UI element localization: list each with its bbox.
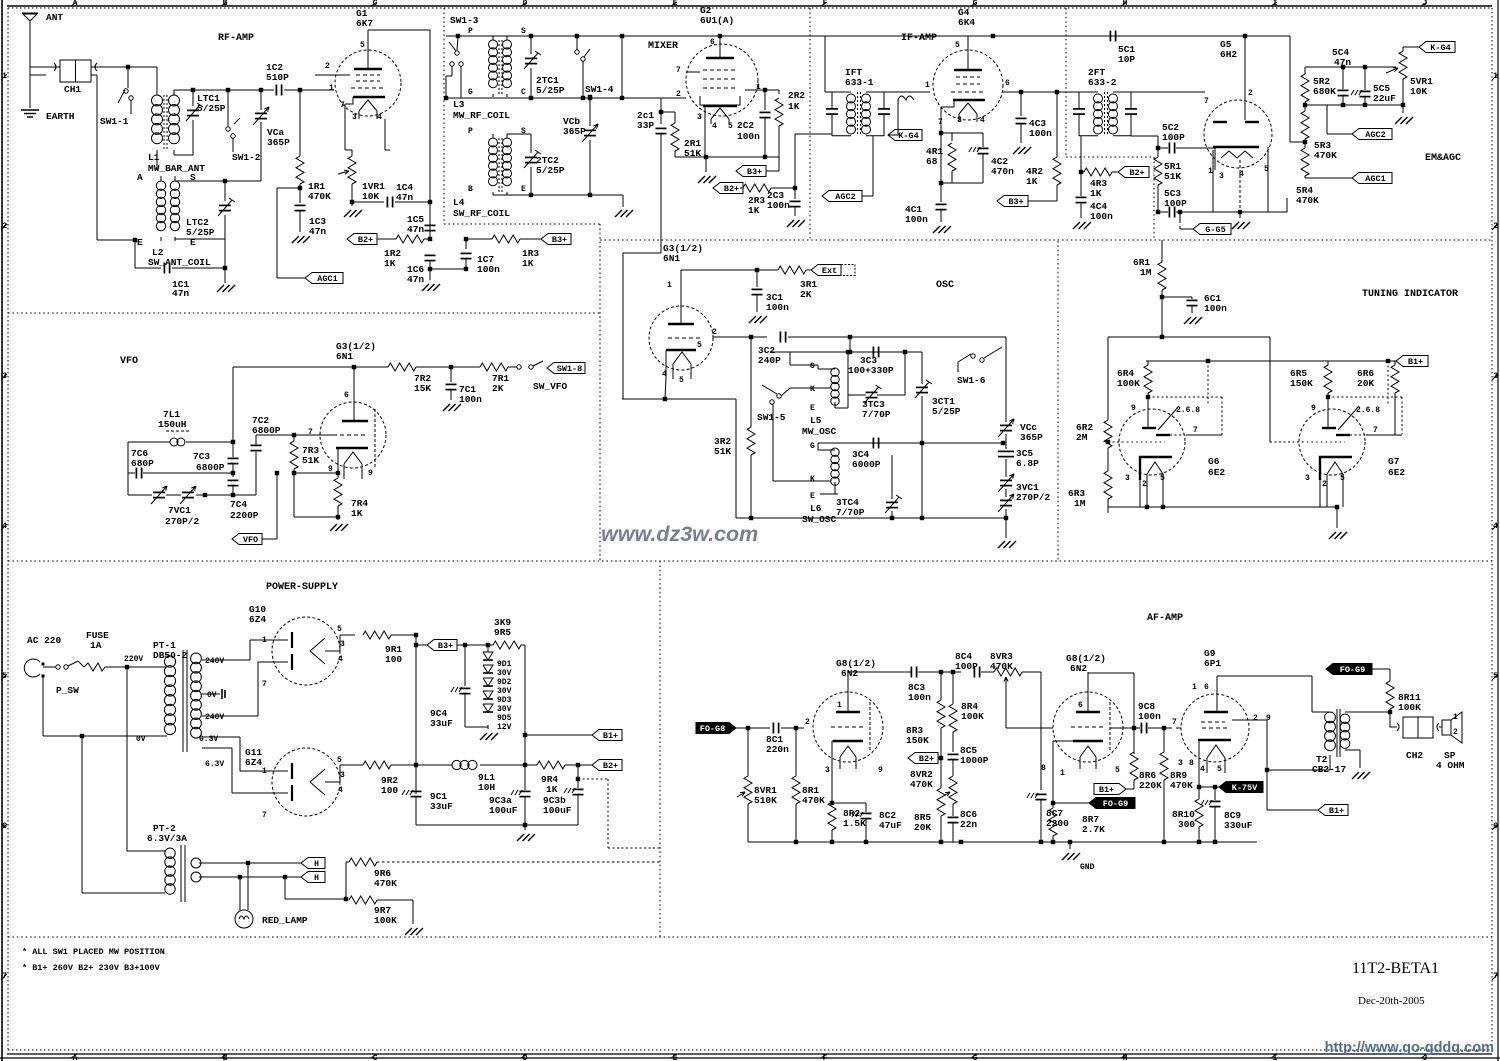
svg-text:100K: 100K [961,711,984,722]
svg-text:B2+: B2+ [724,184,739,194]
svg-text:MW_RF_COIL: MW_RF_COIL [453,110,510,121]
svg-text:1.5K: 1.5K [843,818,866,829]
svg-text:G-G5: G-G5 [1205,225,1225,235]
capacitor 8C6 [948,809,978,842]
tube G7 6E2 [1288,404,1405,489]
svg-text:5: 5 [337,625,342,634]
svg-text:0V: 0V [207,691,217,700]
ground 4C4 [1073,222,1091,229]
capacitor 1C4 [352,182,432,208]
svg-text:TUNING INDICATOR: TUNING INDICATOR [1362,289,1458,300]
wire detector row212 [1178,210,1213,223]
inductor 7L1 [128,409,233,446]
capacitor 9C1 [402,790,453,825]
svg-text:6N2: 6N2 [841,668,858,679]
capacitor 1C3 [295,196,327,237]
wire tap 0v heater [202,689,225,699]
wire sw15 K6 [773,404,831,481]
svg-text:6.3V/3A: 6.3V/3A [147,833,187,844]
capacitor 1C7 [461,237,501,275]
svg-text:MIXER: MIXER [648,41,678,52]
capacitor 7C2 [251,415,297,495]
flag B2+ psu [578,760,622,772]
wire L5 G row [771,337,922,369]
svg-text:1: 1 [262,767,267,776]
wire osc bottom row [736,516,1008,520]
wire G9 grid [1176,727,1181,729]
section divider PSU/AF x660 [659,561,661,937]
wire osc grid row [713,335,767,339]
flag B2+ rf [347,234,396,246]
svg-text:1K: 1K [1090,188,1102,199]
tube G11 6Z4 [245,747,345,820]
svg-text:K-75V: K-75V [1232,783,1258,793]
wire row y157 [675,155,779,159]
switch SW_VFO [517,361,568,392]
wire G7 anode drop [1387,361,1389,406]
wire injection from mixer [622,397,736,518]
transformer L4 SW_RF_COIL [453,134,512,219]
svg-text:100n: 100n [905,214,928,225]
svg-text:100K: 100K [1117,378,1140,389]
wire G11 cathode out [325,765,363,782]
title OSC [936,280,954,291]
capacitor 9C4 [430,645,471,729]
resistor 7R2 [388,363,431,394]
svg-text:5: 5 [728,122,733,131]
transformer PT-1 [153,640,201,752]
svg-text:150K: 150K [906,735,929,746]
capacitor 1C6 [407,255,436,285]
svg-text:5/25P: 5/25P [186,227,215,238]
svg-text:7: 7 [676,66,681,75]
svg-text:3: 3 [340,640,345,649]
svg-text:1K: 1K [384,258,396,269]
svg-text:4: 4 [377,113,382,122]
svg-text:470K: 470K [1314,150,1337,161]
svg-text:1000P: 1000P [960,755,989,766]
svg-text:33uF: 33uF [430,718,453,729]
section divider VFO/OSC [599,224,601,561]
ground 6C1 [1184,317,1202,324]
resistor 2R2 [775,90,805,171]
wire CH2 wiring [1390,712,1442,727]
resistor 2R3 [740,184,797,216]
capacitor 5C4 [1332,47,1351,105]
svg-text:240V: 240V [205,713,224,722]
switch SW1-2 [226,90,261,163]
svg-text:470K: 470K [910,779,933,790]
capacitor 9C3a [489,790,531,825]
wire G5 plate lead [1244,36,1246,120]
svg-text:9D5: 9D5 [497,714,512,723]
svg-text:B2+: B2+ [1129,168,1144,178]
capacitor 3C1 [752,270,790,313]
svg-text:365P: 365P [1020,432,1043,443]
title RF-AMP [218,33,254,44]
title TUNING INDICATOR [1362,289,1458,300]
resistor 9R5 [493,617,525,649]
svg-text:7: 7 [1373,426,1378,435]
resistor 8R1 [792,728,825,842]
potentiometer 8VR1 [737,728,777,842]
box under G5 [1213,147,1287,212]
wire G2 g1 row [686,71,700,73]
resistor 6R4 [1117,361,1152,428]
section divider y937 [8,936,1492,938]
svg-text:C: C [521,88,526,97]
svg-text:6800P: 6800P [252,425,281,436]
svg-text:22uF: 22uF [1373,93,1396,104]
capacitor 5C1 [1110,31,1135,66]
svg-text:100P: 100P [1162,132,1185,143]
wire heater row2 [199,875,301,879]
svg-text:A: A [137,172,143,183]
svg-text:H: H [314,860,319,869]
svg-text:1K: 1K [788,101,800,112]
svg-text:6E2: 6E2 [1208,467,1225,478]
wire tuning cath rail [1108,480,1343,509]
svg-text:RED_LAMP: RED_LAMP [262,915,308,926]
svg-text:220n: 220n [766,744,789,755]
tube G3a 6N1 vfo [308,341,386,479]
svg-text:2.7K: 2.7K [1082,824,1105,835]
tube G3b 6N1 osc [649,243,717,385]
svg-text:270P/2: 270P/2 [165,516,200,527]
svg-text:3: 3 [825,766,830,775]
svg-text:30V: 30V [497,669,512,678]
svg-text:E: E [521,185,526,194]
diode chain 9D1-9D5 [483,643,512,732]
svg-text:1: 1 [925,81,930,90]
svg-text:9R5: 9R5 [494,627,511,638]
svg-text:MW_BAR_ANT: MW_BAR_ANT [148,163,205,174]
svg-text:680K: 680K [1313,86,1336,97]
svg-text:P: P [468,127,473,136]
svg-text:240V: 240V [205,657,224,666]
svg-text:L3: L3 [453,99,465,110]
wire G9 cathode [1197,740,1217,789]
resistor 7R3 [290,435,319,517]
svg-text:7C4: 7C4 [230,499,247,510]
transformer L1 MW_BAR_ANT [148,67,205,174]
wire 3C3 box [846,350,907,395]
svg-text:B3+: B3+ [438,641,453,651]
wire G4 plate [967,36,969,50]
svg-text:7: 7 [1172,718,1177,727]
svg-text:2K: 2K [492,383,504,394]
svg-text:33P: 33P [637,120,654,131]
svg-text:SW_OSC: SW_OSC [802,514,837,525]
section divider IF/EM x1066 [1066,8,1154,240]
svg-text:1K: 1K [748,205,760,216]
trimmer 2TC2 [507,134,565,197]
svg-text:2M: 2M [1076,432,1088,443]
section divider RF/coilbox [444,8,600,224]
wire PT1 primary taps [0,0,1,1]
ground psu rail [517,825,535,841]
wire row337 [1108,337,1270,406]
svg-text:9: 9 [368,469,373,478]
capacitor 1C5 [407,214,436,241]
coil L5 MW_OSC [802,368,839,437]
svg-text:1: 1 [1453,713,1458,722]
svg-text:B2+: B2+ [358,235,373,245]
svg-text:E: E [190,237,196,248]
wire osc plate row [681,268,778,272]
svg-text:100+330P: 100+330P [848,365,894,376]
flag AGC2 if [822,136,873,202]
wire row y195 [493,193,623,207]
wire tap 63b [202,748,288,793]
svg-text:6: 6 [344,391,349,400]
svg-text:470K: 470K [990,661,1013,672]
label AC 220 [27,635,62,646]
wire row361 [1146,359,1396,363]
trimmer LTC1 [186,88,226,155]
resistor 6R5 [1290,361,1332,428]
svg-text:47n: 47n [407,224,424,235]
svg-text:100uF: 100uF [489,805,518,816]
section divider MIXER/IF x810 [809,8,811,240]
tube G8a 6N2 [805,658,883,775]
wire 2FT right to G5 [1131,91,1205,93]
svg-text:GND: GND [1080,863,1095,872]
tube G4 6K4 [925,7,1010,127]
svg-text:47n: 47n [309,226,326,237]
resistor 6R3 [1068,448,1112,513]
svg-text:4: 4 [338,655,343,664]
capacitor 4C4 [1076,197,1114,222]
resistor 1R2 [384,235,430,269]
potentiometer 5VR1 [1386,47,1433,105]
variable cap 7VC1a [151,486,167,504]
svg-text:220V: 220V [124,655,143,664]
flag VFO [232,471,279,545]
svg-text:S: S [521,127,526,136]
resistor 9R6 [285,858,397,901]
svg-text:8: 8 [1041,764,1046,773]
capacitor 8C1 [766,723,804,756]
svg-text:2: 2 [1453,728,1458,737]
capacitor 6C1 [1162,293,1227,314]
wire G1 plate to bus [368,30,430,239]
wire G1 grid [284,75,350,92]
wire G2 cathode [703,106,705,157]
capacitor 8C4 [955,651,994,678]
variable cap VCb [563,95,598,195]
svg-text:30V: 30V [497,687,512,696]
svg-text:5: 5 [337,756,342,765]
switch SW1-6 [957,347,1002,386]
wire sw15 to K5 [781,388,831,396]
wire IF top bus [825,34,1290,92]
wire L6 E [820,482,838,494]
svg-text:100n: 100n [1138,711,1161,722]
svg-text:11T2-BETA1: 11T2-BETA1 [1352,960,1439,977]
svg-text:6: 6 [1005,79,1010,88]
svg-text:6Z4: 6Z4 [249,614,266,625]
svg-text:9: 9 [1131,404,1136,413]
resistor 1R3 [466,235,541,269]
flag B2+ af [908,753,941,765]
connector CH2 [1397,717,1439,761]
svg-text:K: K [810,385,815,394]
wire af bottom rail [748,840,1257,844]
resistor 6R1 [1133,240,1166,339]
flag B1+ psu [525,730,622,742]
svg-text:SW1-5: SW1-5 [757,412,786,423]
transformer 2FT 633-2 [1073,67,1137,136]
svg-text:1K: 1K [546,784,558,795]
capacitor 2c1 [637,98,667,253]
potentiometer 8VR2 [910,769,957,816]
svg-text:B1+: B1+ [1329,806,1344,816]
svg-text:6: 6 [1204,683,1209,692]
svg-text:365P: 365P [267,137,290,148]
flag input FO-G8 [696,723,770,735]
switch SW1-3 [444,15,479,100]
ground 2C3 [787,220,805,227]
svg-text:20K: 20K [1357,378,1374,389]
ground 1C3 [292,236,310,243]
svg-text:2: 2 [676,90,681,99]
svg-text:7: 7 [262,811,267,820]
svg-text:9D1: 9D1 [497,660,512,669]
svg-text:G: G [810,442,815,451]
svg-text:100n: 100n [908,692,931,703]
svg-text:4 OHM: 4 OHM [1436,760,1465,771]
svg-text:http://www.go-gddq.com: http://www.go-gddq.com [1325,1040,1494,1056]
transformer L3 MW_RF_COIL [453,36,512,121]
svg-text:1: 1 [1208,167,1213,176]
svg-text:33uF: 33uF [430,801,453,812]
svg-text:L5: L5 [810,415,822,426]
switch P_SW [43,661,79,696]
svg-text:633-1: 633-1 [845,77,874,88]
svg-text:365P: 365P [563,126,586,137]
resistor 4R2 [1026,92,1061,201]
svg-text:240P: 240P [758,355,781,366]
wire G8b plate [1088,673,1136,754]
flag vfo net [547,363,585,375]
svg-text:1: 1 [756,83,761,92]
label FUSE [86,630,109,651]
wire tap 240b [202,662,288,716]
terminal letters L3 [468,27,526,97]
wire AGC tap [277,188,305,278]
svg-text:470n: 470n [991,166,1014,177]
variable cap 3VC1b [998,482,1051,512]
potentiometer 8VR3 [990,651,1041,690]
terminal letters L2 top [137,172,196,183]
plug P_SW [24,659,44,677]
svg-text:Ext: Ext [822,266,837,276]
variable cap 3VC1a [998,474,1014,492]
ground 2R1 [698,157,716,183]
ground tuning [1329,507,1347,539]
svg-text:5: 5 [1217,765,1222,774]
svg-text:22n: 22n [960,819,977,830]
ground EARTH [21,110,75,122]
svg-text:B3+: B3+ [552,235,567,245]
capacitor 8C9 [1201,787,1253,842]
svg-text:E: E [137,237,143,248]
ground 5VR1 [1395,105,1413,124]
svg-text:MW_OSC: MW_OSC [802,426,837,437]
svg-text:6.8P: 6.8P [1016,458,1039,469]
svg-text:1K: 1K [522,258,534,269]
flag AGC1 em [1305,173,1392,185]
wire PT2 feeds [82,667,165,893]
svg-text:3: 3 [1305,474,1310,483]
svg-text:100n: 100n [1090,211,1113,222]
svg-text:6N2: 6N2 [1070,663,1087,674]
resistor 8R10 [1172,787,1203,842]
svg-text:7VC1: 7VC1 [168,505,191,516]
wire vfo left vert [127,442,129,473]
ground 4C1 [933,226,951,233]
svg-text:7/70P: 7/70P [836,507,865,518]
svg-text:51K: 51K [714,446,731,457]
svg-text:100K: 100K [374,915,397,926]
svg-text:AGC1: AGC1 [1365,174,1385,184]
wire G4 out row [1003,90,1079,94]
capacitor 5C3 [1158,188,1187,218]
svg-text:2.6.8: 2.6.8 [1176,406,1200,415]
ground diode chain [465,727,498,740]
svg-text:2: 2 [1248,89,1253,98]
wire B2 to AF dotted [578,779,662,848]
svg-text:* B1+ 260V B2+ 230V B3+100V: * B1+ 260V B2+ 230V B3+100V [22,963,161,973]
svg-text:3: 3 [352,113,357,122]
svg-text:2200P: 2200P [230,510,259,521]
svg-text:CH2: CH2 [1406,750,1423,761]
antenna ANT [22,12,63,67]
svg-text:6E2: 6E2 [1388,467,1405,478]
ground 3C1 [749,316,767,323]
wire tap 240a [202,640,288,660]
resistor 4R1 [926,133,956,183]
connector CH1 [54,60,97,95]
ground osc bottom [998,518,1016,548]
svg-text:47n: 47n [172,288,189,299]
svg-text:2: 2 [712,328,717,337]
svg-text:FO-G9: FO-G9 [1103,799,1129,809]
transformer PT-2 [147,823,201,902]
wire L6 G row [818,441,1005,450]
svg-text:7: 7 [340,101,345,110]
wire mains top [125,665,167,669]
wire T2 secondary bottom [1345,750,1360,768]
svg-text:K: K [810,475,815,484]
svg-text:51K: 51K [1164,171,1181,182]
svg-text:2R2: 2R2 [788,90,805,101]
ground below L2 [217,268,235,292]
svg-text:100P: 100P [955,661,978,672]
variable cap 7VC1b [165,486,200,527]
svg-text:12V: 12V [497,723,512,732]
svg-text:2: 2 [1142,480,1147,489]
svg-text:3: 3 [957,116,962,125]
wire row y105 [1305,103,1405,107]
flag Ext osc [811,265,855,277]
svg-text:CH1: CH1 [64,84,81,95]
svg-text:100P: 100P [1164,198,1187,209]
wire G6 target elbow [1148,397,1222,435]
svg-text:6.3V: 6.3V [205,760,224,769]
wire ant to CH1 [30,67,54,75]
